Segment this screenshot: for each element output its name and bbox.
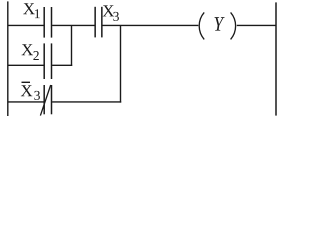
wire rung3 right segment: [52, 101, 121, 103]
wire rung1 to coil: [102, 24, 198, 26]
label X3bar overline: [22, 81, 31, 83]
label X3bar subscript 3: [34, 91, 40, 100]
contact X3bar bar1: [43, 85, 45, 114]
wire rung2 right segment: [52, 64, 72, 66]
contact X3bar bar2: [51, 85, 53, 114]
label X3 subscript 3: [113, 12, 119, 21]
contact X2 bar2: [51, 43, 53, 79]
wire rung3 left segment: [8, 101, 44, 103]
wire junction branch X2 vertical: [71, 25, 73, 66]
label X2 subscript 2: [33, 51, 38, 60]
coil label Y: [214, 17, 224, 30]
left power rail: [7, 1, 9, 116]
contact X3 bar1: [94, 7, 96, 38]
wire rung1 mid segment: [52, 24, 95, 26]
contact X1 bar1: [43, 7, 45, 38]
contact X3bar NC slash: [40, 85, 50, 116]
wire junction branch X3bar vertical: [120, 25, 122, 102]
label X1 subscript 1: [35, 9, 40, 18]
contact X3 bar2: [101, 7, 103, 38]
label X2 letter X: [22, 44, 33, 55]
wire coil to right rail: [237, 24, 276, 26]
label X1 letter X: [23, 3, 34, 14]
right power rail: [275, 2, 277, 115]
coil Y right paren: [231, 12, 236, 39]
wire rung2 left segment: [8, 64, 44, 66]
wire rung1 left segment: [8, 24, 44, 26]
contact X1 bar2: [51, 7, 53, 38]
coil Y left paren: [199, 12, 204, 39]
label X3 letter X: [103, 5, 114, 16]
label X3bar letter X: [21, 85, 32, 96]
contact X2 bar1: [43, 43, 45, 79]
